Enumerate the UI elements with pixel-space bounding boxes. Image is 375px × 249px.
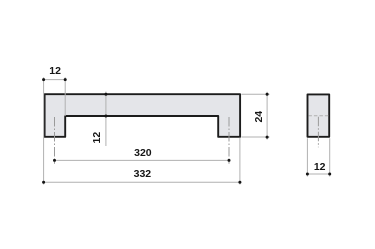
svg-text:332: 332 bbox=[134, 168, 152, 180]
svg-text:12: 12 bbox=[314, 161, 326, 173]
svg-text:12: 12 bbox=[91, 132, 103, 144]
svg-text:24: 24 bbox=[253, 111, 265, 123]
svg-text:12: 12 bbox=[49, 65, 61, 77]
svg-text:320: 320 bbox=[134, 147, 152, 159]
